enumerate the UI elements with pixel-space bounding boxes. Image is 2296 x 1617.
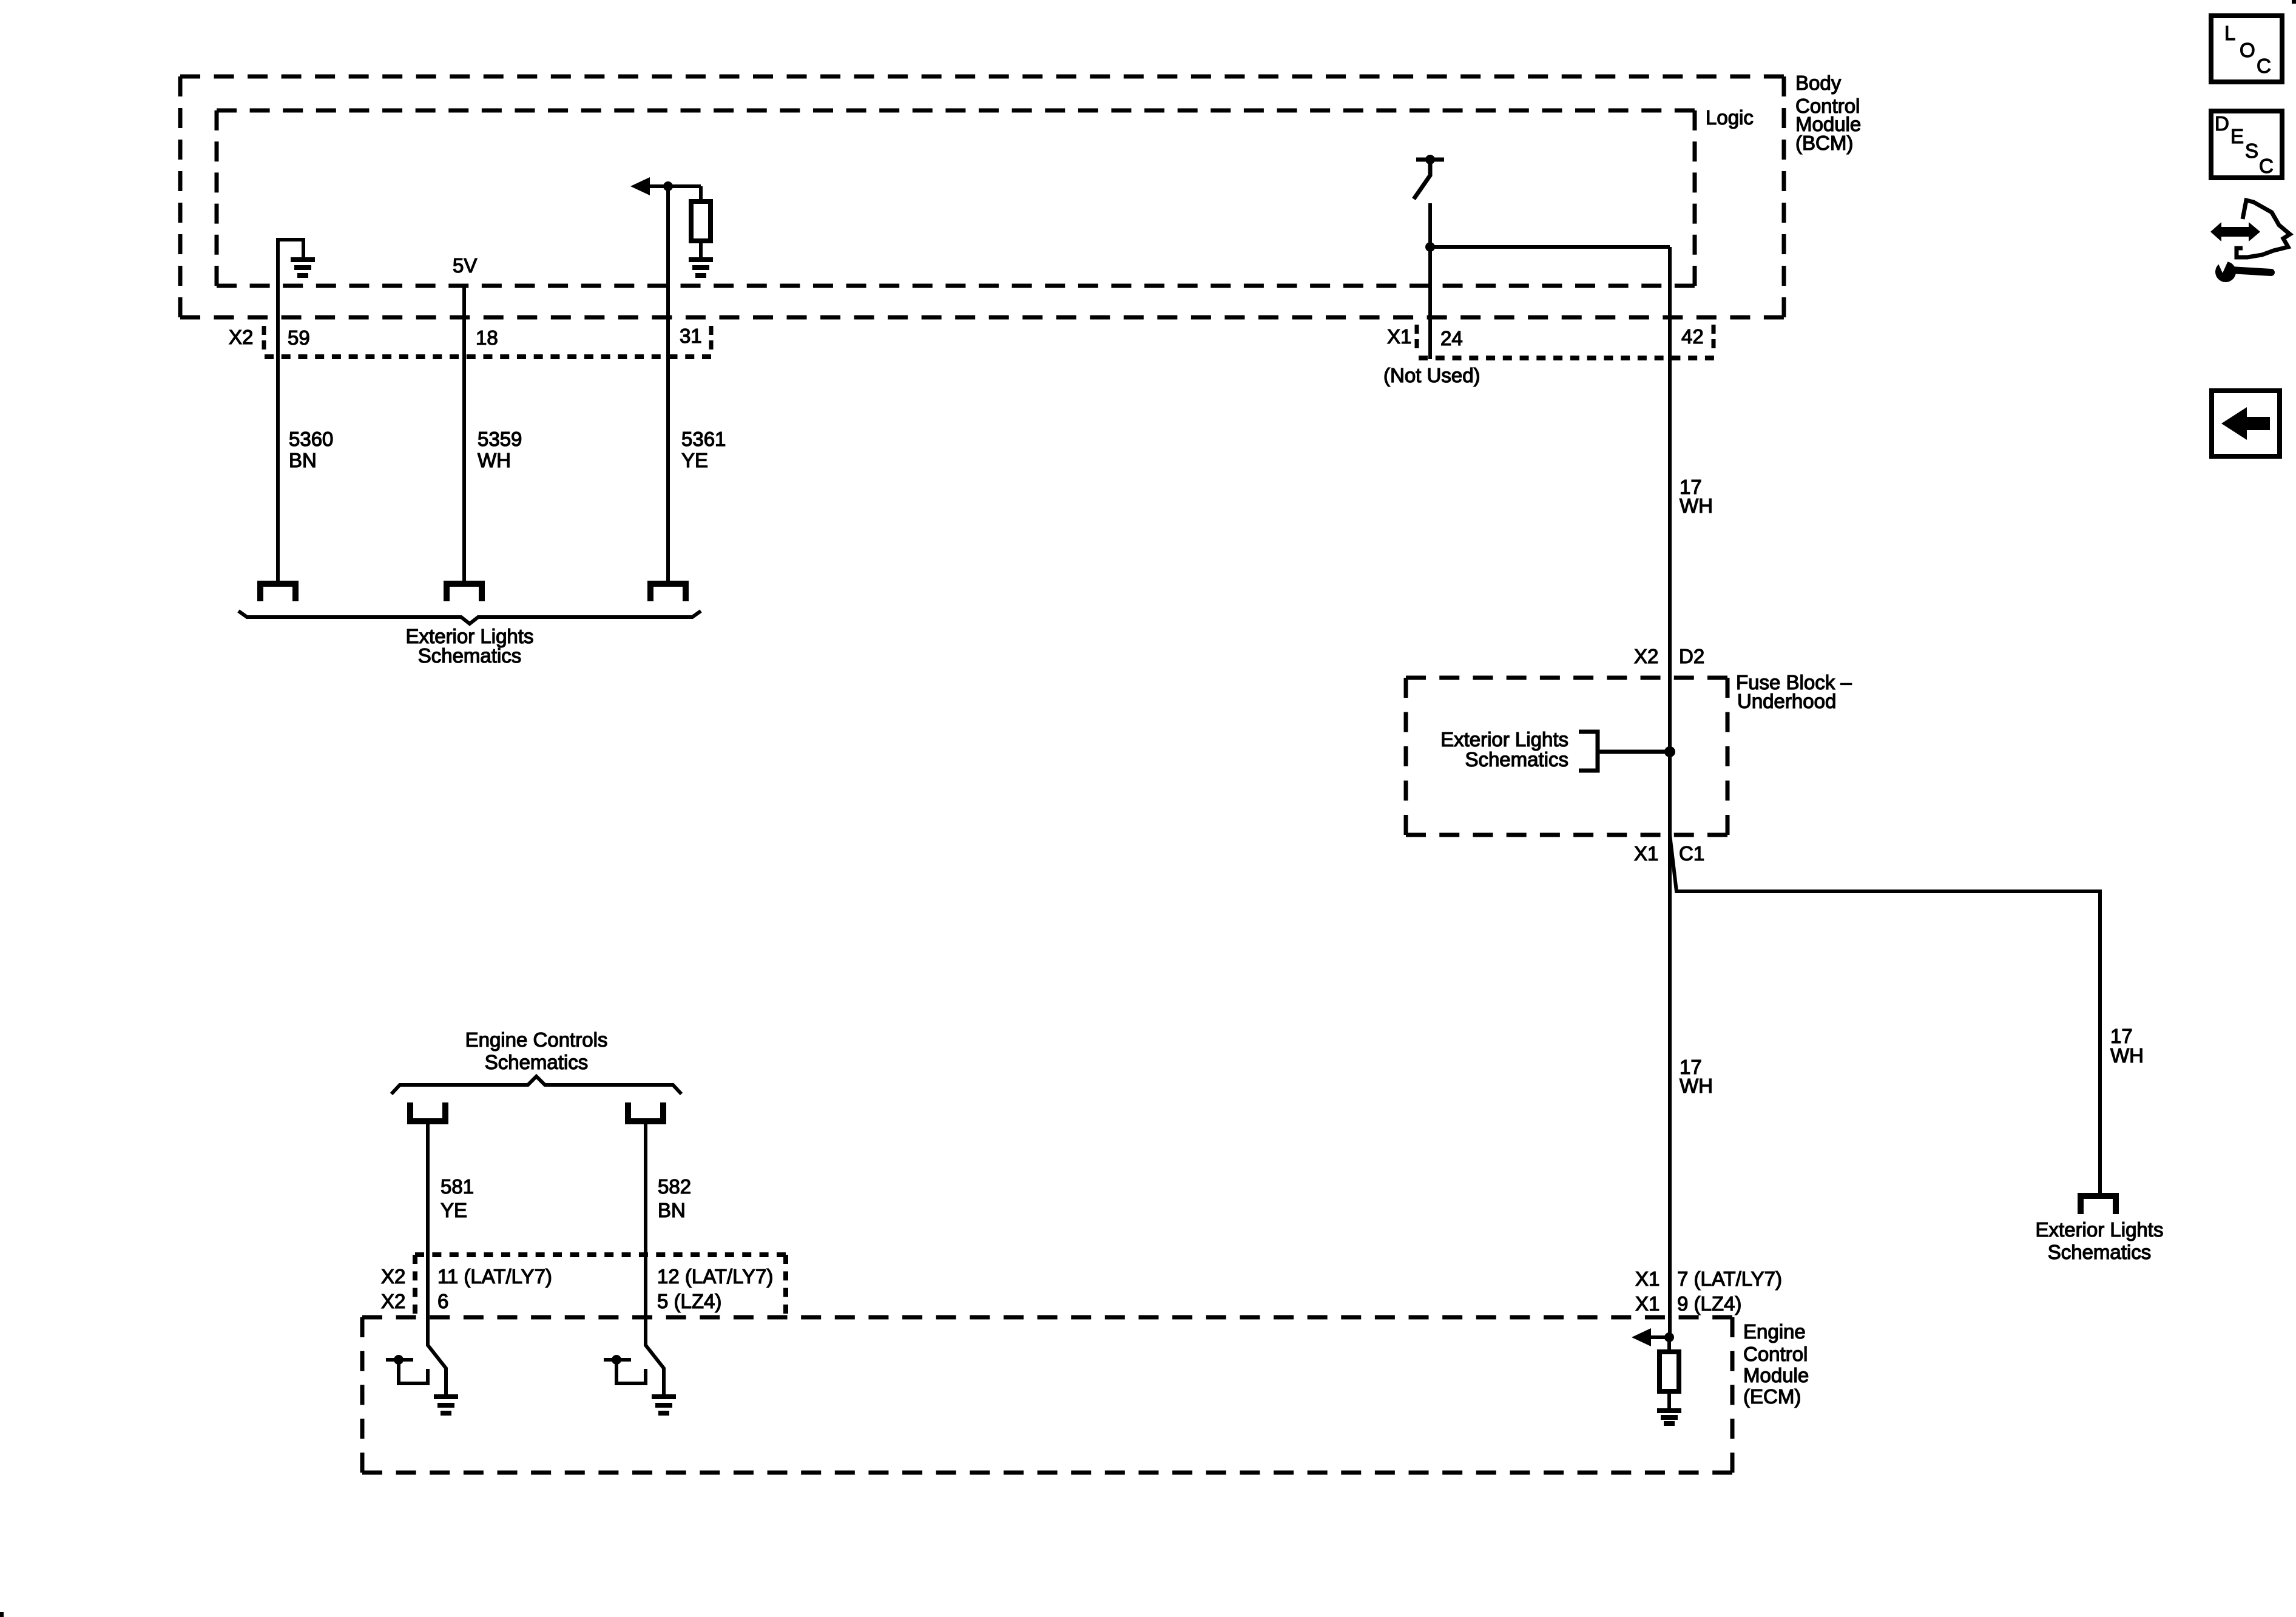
- svg-text:5359: 5359: [478, 428, 522, 450]
- svg-text:C1: C1: [1679, 842, 1704, 865]
- terminal T6 (wire 582): [628, 1102, 663, 1121]
- bracket to exterior lights: [1579, 732, 1598, 771]
- terminal T2 (wire 18): [447, 584, 482, 601]
- wire from bracket to node: [1598, 750, 1670, 754]
- BCM module box top edge: [180, 75, 1784, 79]
- wire 24 stub from switch: [1428, 203, 1432, 359]
- Fuse Block box bottom edge: [1406, 833, 1727, 837]
- svg-text:(ECM): (ECM): [1743, 1385, 1801, 1408]
- terminal T4 (far right): [2081, 1196, 2116, 1214]
- wire from switch junction to pin 42: [1430, 245, 1670, 249]
- svg-text:Module: Module: [1743, 1364, 1809, 1386]
- terminal T5 (wire 581): [410, 1102, 445, 1121]
- wire 581: [428, 1123, 446, 1396]
- ECM module box left edge: [360, 1317, 365, 1473]
- svg-text:42: 42: [1681, 325, 1704, 348]
- svg-text:X2: X2: [229, 326, 253, 348]
- svg-text:Schematics: Schematics: [1465, 748, 1568, 771]
- brace to Exterior Lights Schematics: [238, 611, 701, 624]
- svg-text:5361: 5361: [681, 428, 726, 450]
- svg-text:(BCM): (BCM): [1795, 132, 1853, 154]
- connector box left edge: [413, 1255, 417, 1314]
- node junction dot wire 31: [663, 181, 673, 191]
- splice ground symbol near wire 582: [612, 1355, 621, 1365]
- svg-text:D: D: [2215, 112, 2229, 135]
- wire 31 vertical: [666, 186, 670, 584]
- ECM module box right edge: [1730, 1317, 1735, 1473]
- svg-text:11 (LAT/LY7): 11 (LAT/LY7): [437, 1265, 552, 1288]
- icon back arrow box: [2212, 391, 2280, 456]
- resistor R1 (pull-up in BCM): [699, 186, 703, 201]
- svg-text:Logic: Logic: [1706, 106, 1754, 129]
- svg-text:Body: Body: [1795, 72, 1842, 94]
- svg-text:X1: X1: [1634, 842, 1658, 865]
- arrow (signal to logic) on wire 31: [630, 177, 650, 195]
- icon LOC box: [2211, 16, 2282, 82]
- ECM module box top edge: [362, 1315, 1732, 1320]
- Fuse Block box top edge: [1406, 676, 1727, 680]
- svg-text:Schematics: Schematics: [485, 1051, 589, 1073]
- svg-text:Engine Controls: Engine Controls: [465, 1028, 608, 1051]
- ground G3 (wire 581): [434, 1394, 458, 1399]
- icon DESC box: [2211, 111, 2282, 178]
- svg-text:581: 581: [441, 1175, 474, 1198]
- splice ground symbol near wire 581: [394, 1355, 403, 1365]
- terminal T1 (wire 59): [260, 584, 295, 601]
- speck top right: [2292, 0, 2296, 4]
- svg-text:5V: 5V: [453, 254, 477, 277]
- wire branch to right (17 WH): [1670, 835, 2100, 1196]
- svg-text:5 (LZ4): 5 (LZ4): [657, 1290, 721, 1312]
- svg-text:WH: WH: [1680, 495, 1713, 517]
- connector X1 tick left: [1415, 325, 1419, 348]
- svg-text:WH: WH: [2110, 1044, 2144, 1067]
- BCM logic box left edge: [215, 110, 219, 286]
- Fuse Block box right edge: [1726, 678, 1730, 835]
- switch S1 in BCM logic: [1416, 158, 1444, 162]
- svg-text:E: E: [2230, 125, 2244, 147]
- connector box right edge: [783, 1255, 788, 1314]
- svg-text:X2: X2: [1634, 645, 1658, 667]
- svg-text:Schematics: Schematics: [2048, 1241, 2152, 1263]
- connector X2 tick left: [262, 326, 266, 349]
- svg-text:Underhood: Underhood: [1737, 690, 1836, 712]
- node junction dot in fuse block: [1664, 746, 1675, 757]
- svg-text:X2: X2: [381, 1265, 405, 1288]
- svg-text:59: 59: [288, 326, 310, 349]
- connector tick right of pin 42: [1712, 325, 1716, 348]
- svg-text:Control: Control: [1743, 1343, 1808, 1365]
- BCM logic box bottom edge: [217, 284, 1695, 288]
- connector box (ECM left, dotted) top edge: [415, 1252, 786, 1257]
- svg-text:X1: X1: [1635, 1292, 1660, 1315]
- svg-text:5360: 5360: [289, 428, 333, 450]
- icon wrench: [2215, 262, 2236, 282]
- svg-text:Exterior Lights: Exterior Lights: [1440, 728, 1568, 751]
- svg-text:Engine: Engine: [1743, 1320, 1806, 1343]
- connector X1 row (BCM right): dotted line: [1419, 356, 1714, 360]
- svg-text:7 (LAT/LY7): 7 (LAT/LY7): [1677, 1268, 1782, 1290]
- svg-text:24: 24: [1440, 327, 1463, 349]
- wire 582: [646, 1123, 664, 1396]
- svg-text:Exterior Lights: Exterior Lights: [2036, 1218, 2164, 1241]
- svg-text:6: 6: [437, 1290, 448, 1312]
- node junction dot at switch output: [1425, 242, 1435, 252]
- ground G5 (ECM): [1657, 1408, 1681, 1413]
- svg-text:YE: YE: [681, 449, 708, 471]
- svg-text:9 (LZ4): 9 (LZ4): [1677, 1292, 1741, 1315]
- terminal T3 (wire 31): [650, 584, 686, 601]
- connector tick right of pin 31: [709, 326, 714, 349]
- svg-text:D2: D2: [1679, 645, 1704, 667]
- BCM logic box top edge: [217, 109, 1695, 113]
- node junction dot in ECM: [1664, 1332, 1674, 1342]
- brace from Engine Controls Schematics: [391, 1076, 681, 1094]
- svg-text:O: O: [2240, 39, 2255, 61]
- Fuse Block box left edge: [1404, 678, 1408, 835]
- ground G2 below resistor R1: [689, 257, 713, 262]
- svg-text:WH: WH: [1680, 1075, 1713, 1097]
- svg-text:C: C: [2257, 55, 2271, 77]
- svg-text:X1: X1: [1387, 325, 1411, 348]
- svg-text:12 (LAT/LY7): 12 (LAT/LY7): [657, 1265, 773, 1288]
- BCM module box left edge: [178, 76, 183, 317]
- ground G1 inside logic box: [291, 257, 315, 262]
- BCM logic box right edge: [1693, 110, 1697, 286]
- wire 18 (5V supply): [462, 286, 466, 584]
- resistor R2 (in ECM): [1667, 1337, 1671, 1352]
- connector X2 row (BCM left): dotted line: [265, 354, 711, 359]
- svg-text:BN: BN: [289, 449, 317, 471]
- icon double arrow: [2210, 222, 2260, 241]
- svg-text:X1: X1: [1635, 1268, 1660, 1290]
- BCM module box right edge: [1782, 76, 1786, 317]
- wire 59 vertical with turn to ground: [278, 240, 303, 584]
- svg-text:YE: YE: [441, 1199, 467, 1221]
- svg-text:C: C: [2259, 155, 2274, 177]
- svg-text:31: 31: [680, 325, 702, 347]
- svg-text:L: L: [2224, 22, 2235, 44]
- arrow (signal) in ECM: [1632, 1328, 1651, 1346]
- svg-text:Schematics: Schematics: [418, 644, 522, 667]
- svg-text:S: S: [2245, 140, 2258, 162]
- ground G4 (wire 582): [652, 1394, 676, 1399]
- ECM module box bottom edge: [362, 1471, 1732, 1475]
- svg-text:18: 18: [476, 326, 498, 349]
- icon vehicle outline (diagnostic icon): [2237, 200, 2290, 257]
- svg-text:582: 582: [658, 1175, 691, 1198]
- wire 42 / 17 WH main vertical: [1668, 247, 1672, 1337]
- svg-text:WH: WH: [478, 449, 511, 471]
- BCM module box bottom edge: [180, 316, 1784, 320]
- svg-text:(Not Used): (Not Used): [1383, 364, 1481, 387]
- speck bottom left: [0, 1612, 4, 1617]
- svg-text:BN: BN: [658, 1199, 686, 1221]
- svg-text:X2: X2: [381, 1290, 405, 1312]
